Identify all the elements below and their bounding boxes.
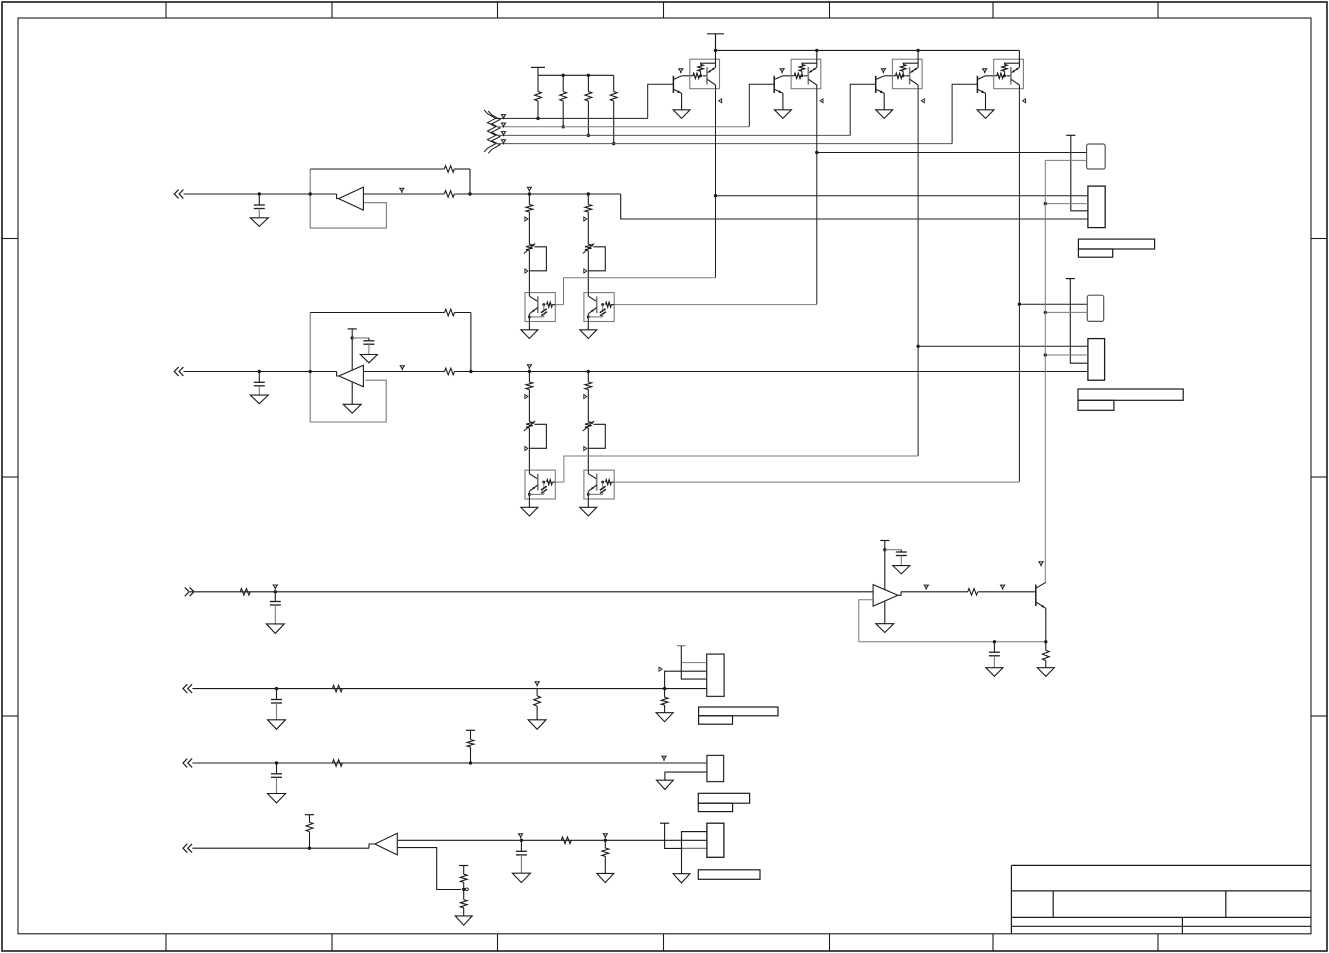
wire net OPTO4	[1018, 89, 1020, 482]
connector J1B	[1088, 186, 1105, 228]
wire U11 out	[555, 278, 715, 305]
bus entry chevrons	[484, 110, 496, 152]
wire bus IN4	[496, 143, 952, 145]
optocoupler U4	[994, 59, 1024, 88]
wire J2B pin2	[1045, 354, 1088, 356]
power symbol VCC J1	[1066, 134, 1075, 136]
resistor R21	[463, 890, 465, 900]
pin label U3	[921, 99, 924, 103]
wire U6 input jog	[337, 372, 339, 377]
label box J2 ref	[1078, 389, 1183, 400]
power symbol U6 V+	[348, 328, 357, 330]
wire J3 pin2 jog	[665, 671, 707, 688]
net label IN4	[501, 140, 505, 143]
wire riser IN2	[749, 84, 774, 127]
wire riser IN1	[648, 84, 674, 118]
ground U11	[521, 330, 538, 339]
ground Q1	[673, 110, 690, 119]
net label Q3 collector	[881, 69, 885, 72]
capacitor C5 decoupling	[885, 549, 902, 551]
power symbol J5 supply	[660, 822, 669, 824]
connector J5 body	[682, 832, 707, 849]
net label row2	[400, 366, 404, 369]
node R1/net1	[536, 117, 539, 120]
power symbol VCC J2	[1066, 278, 1075, 280]
node U21 led	[542, 481, 545, 484]
wire 22 to opto	[587, 428, 589, 470]
transistor Q4	[976, 76, 978, 93]
ground U6	[343, 404, 361, 413]
ground C2	[250, 395, 268, 404]
capacitor C1	[258, 192, 261, 195]
transistor Q5	[1035, 585, 1037, 607]
pin label 122	[584, 269, 587, 273]
resistor R11a	[528, 194, 530, 205]
port P2 input	[174, 367, 178, 376]
wire U8 upper input	[397, 839, 707, 841]
capacitor C9	[520, 839, 523, 842]
wire rail	[538, 74, 614, 76]
ground R11	[1037, 668, 1054, 677]
wire row2 segment A	[184, 371, 337, 373]
resistor R6	[363, 193, 444, 195]
wire J5 supply pin	[665, 823, 707, 848]
port P1 input	[174, 190, 178, 199]
node U6 supply	[351, 336, 354, 339]
wire VR22 wiper loop	[588, 424, 605, 448]
optocoupler U1	[690, 59, 720, 88]
net label Q1 collector	[679, 69, 683, 72]
resistor R18	[561, 837, 571, 844]
wire VR21 wiper loop	[529, 424, 546, 448]
resistor R2	[562, 75, 564, 91]
resistor R3	[587, 75, 589, 91]
label box J1 ref	[1078, 239, 1154, 249]
trimmer VR21	[526, 422, 533, 428]
net label U7 out	[924, 585, 928, 588]
resistor R4	[613, 75, 615, 91]
wire riser IN3	[850, 84, 876, 135]
label box J1 val	[1078, 249, 1112, 257]
wire J1 supply pin	[1071, 135, 1088, 211]
optocoupler U2	[791, 59, 821, 88]
port P3 output	[185, 587, 189, 596]
node 21 top	[528, 370, 531, 373]
node U2 anode	[800, 74, 803, 77]
node R2/net2	[562, 125, 565, 128]
wire rowR2	[192, 688, 706, 690]
wire riser IN4	[952, 84, 977, 143]
wire VR11 wiper loop	[529, 247, 546, 271]
wire rowR1	[190, 591, 873, 593]
node OPTO1 tee	[714, 194, 717, 197]
wire J3 supply pin	[681, 646, 706, 679]
transistor Q2	[773, 76, 775, 93]
wire U2 input	[816, 50, 818, 67]
ground R13	[528, 720, 546, 730]
ground C4	[266, 624, 284, 634]
wire U3 input	[917, 50, 919, 67]
node R17	[308, 847, 311, 850]
wire U21 out	[555, 456, 918, 482]
pin label 111	[525, 217, 528, 221]
wire U2 output	[816, 85, 818, 89]
wire 21 to opto	[528, 428, 530, 470]
wire U8 input jog	[369, 844, 375, 848]
resistor R5 feedback	[310, 168, 444, 170]
diode U22 LED	[600, 486, 606, 490]
op-amp U7	[873, 585, 898, 607]
optocoupler U21	[525, 470, 555, 499]
ground J5	[673, 874, 690, 883]
node OPTO3 tee	[916, 345, 919, 348]
wire bus IN1	[496, 117, 648, 119]
node U22 led	[601, 481, 604, 484]
wire bus IN2	[496, 126, 750, 128]
node U11 led	[542, 303, 545, 306]
wire OPTO3 to connector	[918, 345, 1088, 347]
ground C5	[893, 566, 910, 574]
node U5 out	[468, 192, 471, 195]
capacitor C4	[274, 590, 277, 593]
ground Q3	[876, 110, 893, 119]
node U7 supply	[883, 548, 886, 551]
wire J4 pin2	[665, 772, 707, 780]
node U6 left	[309, 370, 312, 373]
connector J5	[707, 823, 724, 857]
ground R14	[656, 713, 673, 722]
op-amp U5 body outline	[310, 169, 386, 228]
resistor R21a	[528, 372, 530, 383]
trimmer VR12	[585, 244, 592, 250]
power symbol VCC2	[707, 33, 724, 35]
label box J2 val	[1078, 400, 1114, 410]
connector J2B	[1088, 339, 1105, 381]
op-amp U5	[339, 187, 364, 210]
wire net OPTO3	[917, 89, 919, 456]
net label IN3	[501, 132, 505, 135]
resistor R17	[309, 815, 311, 823]
capacitor C7	[275, 687, 278, 690]
pin label U1	[719, 99, 722, 103]
ground U22	[580, 507, 597, 516]
node U1 anode	[699, 74, 702, 77]
wire OPTO4 to connector	[1019, 303, 1087, 305]
connector J3	[707, 654, 724, 696]
ground Q4	[977, 110, 994, 119]
wire U7 V- pin	[884, 601, 886, 624]
node R16	[469, 761, 472, 764]
wire J1A pin2	[1045, 159, 1086, 161]
ground R19	[597, 873, 614, 882]
wire rowR3	[192, 762, 707, 764]
net label IN2	[501, 123, 505, 126]
optocoupler U11	[525, 293, 555, 322]
net label R19	[603, 834, 607, 837]
port P4 input	[183, 684, 187, 693]
net label row1	[400, 188, 404, 191]
wire row1 jog down to connector	[621, 194, 1088, 219]
wire U12 out	[614, 304, 817, 306]
wire feedback down row2	[470, 313, 472, 372]
ground J4	[657, 780, 674, 789]
node rail junction	[587, 74, 590, 77]
power symbol R17 pull-up	[305, 814, 314, 816]
resistor R13	[536, 689, 538, 696]
power symbol R20 top	[459, 865, 468, 867]
wire VR12 wiper loop	[588, 247, 605, 271]
node U3 anode	[902, 74, 905, 77]
resistor R10	[901, 591, 968, 593]
net label IN1	[501, 115, 505, 118]
wire U22 out	[614, 481, 1019, 483]
resistor R14	[664, 689, 666, 698]
node U12 led	[601, 303, 604, 306]
op-amp U8	[375, 833, 397, 855]
connector J1A	[1087, 144, 1106, 169]
ground R21	[455, 916, 472, 925]
wire row1 segment A	[184, 193, 337, 195]
wire rowR4	[192, 847, 369, 849]
node U6 out	[469, 370, 472, 373]
wire net OPTO1	[715, 89, 717, 278]
resistor R15	[332, 760, 342, 767]
wire U6 supply	[351, 329, 353, 370]
ground C7	[268, 720, 286, 730]
pin label 221	[584, 395, 587, 399]
power symbol R16 pull-up	[466, 729, 475, 731]
resistor R19	[604, 839, 607, 842]
node U5 left	[309, 192, 312, 195]
ground C3	[360, 355, 377, 363]
node supply junction	[815, 49, 818, 52]
node R3/net3	[587, 134, 590, 137]
wire OPTO1 to connector	[716, 195, 1088, 197]
diode U11 LED	[541, 309, 547, 313]
pin label 222	[584, 447, 587, 451]
wire U1 input	[715, 34, 717, 68]
op-amp U6	[339, 365, 364, 387]
ground C8	[268, 794, 286, 804]
resistor R12a	[587, 194, 589, 205]
net label mid R2	[535, 682, 539, 685]
pin label J3-2	[659, 667, 662, 671]
ground C1	[250, 218, 268, 227]
transistor Q3	[875, 76, 877, 93]
wire U4 input	[1018, 50, 1020, 67]
resistor R11	[1045, 642, 1047, 651]
wire J3 pin1	[681, 662, 706, 664]
optocoupler U12	[584, 293, 614, 322]
label box J4 val	[698, 803, 732, 811]
wire 12 to opto	[587, 251, 589, 293]
node rail junction	[562, 74, 565, 77]
pin label U4	[1023, 99, 1026, 103]
net label rowR1	[273, 585, 277, 588]
node supply junction	[714, 49, 717, 52]
wire U7 feedback	[859, 600, 1046, 642]
wire J5 pin1	[682, 832, 707, 874]
wire J2A pin2	[1045, 311, 1087, 313]
node OPTO4 tee	[1018, 303, 1021, 306]
pin label 211	[525, 395, 528, 399]
wire U7 supply	[884, 541, 886, 590]
wire feedback down	[469, 169, 471, 194]
ground C6	[986, 668, 1003, 677]
diode U21 LED	[541, 486, 547, 490]
port P5 input	[183, 759, 187, 768]
pin label 112	[525, 269, 528, 273]
trimmer VR11	[526, 244, 533, 250]
wire U7 output	[898, 592, 901, 596]
ground U12	[580, 330, 597, 339]
resistor R22a	[587, 372, 589, 383]
node gray bus j2a	[1044, 311, 1047, 314]
wire U4 output	[1018, 85, 1020, 89]
node OPTO2 tee	[815, 151, 818, 154]
label box J3 ref	[699, 707, 778, 716]
optocoupler U3	[892, 59, 922, 88]
wire U6 V- pin	[351, 382, 353, 404]
node 22 top	[587, 370, 590, 373]
node Q5 emitter	[1044, 640, 1047, 643]
resistor R12	[332, 685, 342, 692]
label box J5 ref	[698, 870, 760, 880]
wire 11 to opto	[528, 251, 530, 293]
capacitor C3 decoupling	[352, 337, 369, 339]
node U4 anode	[1003, 74, 1006, 77]
pin label 121	[584, 217, 587, 221]
node J3 tap	[663, 687, 666, 690]
wire U1 output	[715, 85, 717, 89]
net label Q2 collector	[780, 69, 784, 72]
wire J1B pin2	[1045, 203, 1088, 205]
net label Q5 collector	[1039, 562, 1043, 565]
node 12 top	[587, 192, 590, 195]
wire U8 lower input	[397, 848, 461, 890]
node gray bus j2b	[1044, 353, 1047, 356]
pin label U2	[820, 99, 823, 103]
wire bus IN3	[496, 134, 851, 136]
node gray bus j1	[1044, 202, 1047, 205]
wire net OPTO2	[816, 89, 818, 305]
net label Q5 base	[1001, 585, 1005, 588]
op-amp U6 body outline	[310, 313, 386, 423]
power symbol J3 supply	[677, 645, 686, 647]
wire gray sense bus	[1044, 160, 1046, 582]
node divider	[462, 888, 465, 891]
resistor R1	[537, 75, 539, 91]
wire U3 output	[917, 85, 919, 89]
node R4/net4	[612, 142, 615, 145]
power rail VCC1	[531, 66, 545, 68]
net label U8 in	[519, 834, 523, 837]
net label J4	[662, 756, 666, 759]
wire U5 input jog	[337, 194, 339, 199]
resistor R9	[240, 589, 250, 596]
label box J3 val	[699, 716, 733, 724]
ground C9	[512, 873, 530, 882]
net label Q4 collector	[983, 69, 987, 72]
port P6 input	[183, 844, 187, 853]
trimmer VR22	[585, 422, 592, 428]
connector J4	[707, 755, 724, 781]
ground U21	[521, 507, 538, 516]
ground U7	[876, 624, 894, 633]
resistor R16	[470, 730, 472, 739]
resistor R8	[363, 371, 444, 373]
wire VCC2 stem	[715, 34, 717, 51]
node supply junction	[916, 49, 919, 52]
connector J2A	[1087, 295, 1103, 321]
label box J4 ref	[698, 793, 749, 803]
wire top supply bus	[716, 49, 1020, 51]
capacitor C6	[993, 640, 996, 643]
optocoupler U22	[584, 470, 614, 499]
node 11 top	[528, 192, 531, 195]
resistor R20	[463, 866, 465, 875]
wire J2 supply pin	[1070, 279, 1088, 364]
ground Q2	[774, 110, 791, 119]
pin label 212	[525, 447, 528, 451]
wire OPTO2 to connector	[817, 152, 1087, 154]
transistor Q1	[672, 76, 674, 93]
capacitor C8	[275, 761, 278, 764]
resistor R7 feedback	[310, 312, 444, 314]
net label 11	[527, 187, 531, 190]
power symbol U7 V+	[880, 540, 889, 542]
net label 21	[527, 365, 531, 368]
capacitor C2	[258, 370, 261, 373]
diode U12 LED	[600, 309, 606, 313]
